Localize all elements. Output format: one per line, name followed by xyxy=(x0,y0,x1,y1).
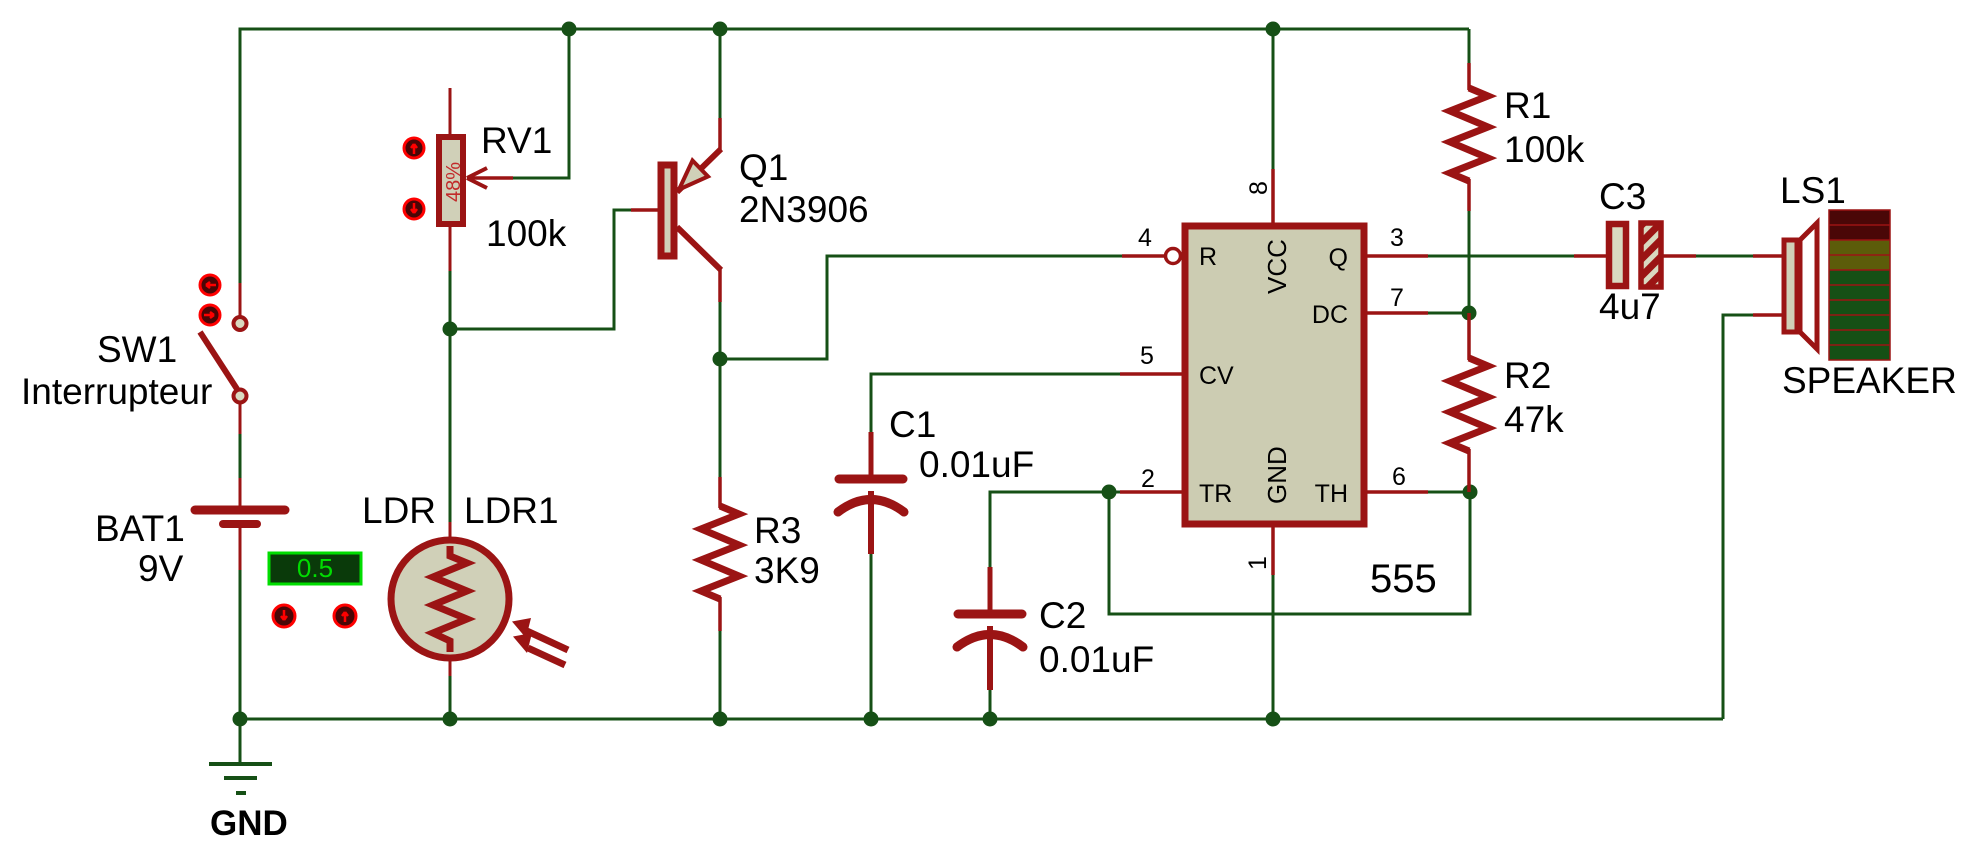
svg-text:R1: R1 xyxy=(1504,85,1551,126)
wire top rail VCC net xyxy=(240,29,1469,283)
speaker LS1 xyxy=(1753,223,1817,349)
svg-text:100k: 100k xyxy=(1504,129,1585,170)
555 pin 3 Q lead xyxy=(1364,254,1428,258)
junction top rail / RV1 wiper xyxy=(562,22,577,37)
junction DC/R1/R2 xyxy=(1462,306,1477,321)
svg-text:LS1: LS1 xyxy=(1780,170,1846,211)
potentiometer RV1 xyxy=(439,88,513,271)
RV1 button down xyxy=(404,199,424,219)
svg-text:VCC: VCC xyxy=(1262,239,1292,294)
battery BAT1 xyxy=(195,478,285,570)
capacitor C3 polarized xyxy=(1574,223,1696,287)
555 pin 7 DC lead xyxy=(1364,311,1428,315)
555 pin 5 CV lead xyxy=(1120,372,1185,376)
junction bottom rail / 555 GND xyxy=(1266,712,1281,727)
wire Q1 emitter to top rail xyxy=(719,29,722,118)
svg-text:LDR1: LDR1 xyxy=(464,490,559,531)
wire R3 bottom to bottom rail xyxy=(719,631,722,719)
555 pin 6 TH lead xyxy=(1364,490,1428,494)
svg-text:4: 4 xyxy=(1138,224,1152,252)
capacitor C1 xyxy=(838,432,904,554)
wire 555 pin7 DC to R1/R2 node xyxy=(1428,312,1469,315)
svg-text:BAT1: BAT1 xyxy=(95,508,185,549)
wire speaker minus to bottom rail xyxy=(1723,315,1753,719)
junction collector/R3/pin4 xyxy=(713,352,728,367)
wire RV1 bottom / LDR top / Q1 base node xyxy=(449,271,452,522)
LDR light arrow 1 xyxy=(512,618,568,650)
wire Q1 collector to R3 xyxy=(719,302,722,477)
svg-text:7: 7 xyxy=(1390,284,1404,312)
svg-text:0.5: 0.5 xyxy=(297,553,333,583)
wire C1 bottom to bottom rail xyxy=(870,554,873,719)
SW1 actuator button up xyxy=(200,275,220,295)
switch SW1 Interrupteur xyxy=(200,283,247,434)
svg-text:5: 5 xyxy=(1140,342,1154,370)
svg-text:SW1: SW1 xyxy=(97,329,177,370)
svg-text:Q1: Q1 xyxy=(739,147,788,188)
junction bottom rail / battery xyxy=(233,712,248,727)
LDR button up xyxy=(334,605,356,627)
svg-text:R: R xyxy=(1199,243,1217,271)
wire TR node down and right to TH node xyxy=(1109,492,1470,614)
svg-text:9V: 9V xyxy=(138,548,184,589)
svg-text:Interrupteur: Interrupteur xyxy=(21,371,212,412)
svg-text:SPEAKER: SPEAKER xyxy=(1782,360,1957,401)
svg-text:RV1: RV1 xyxy=(481,120,552,161)
RV1 button up xyxy=(404,138,424,158)
op-amp U1 555 timer body xyxy=(1185,226,1364,524)
svg-text:4u7: 4u7 xyxy=(1599,286,1661,327)
555 pin 1 GND lead xyxy=(1271,524,1275,575)
svg-text:8: 8 xyxy=(1245,181,1273,195)
svg-text:DC: DC xyxy=(1312,301,1348,329)
svg-text:TH: TH xyxy=(1315,480,1348,508)
svg-text:C2: C2 xyxy=(1039,595,1086,636)
svg-text:C3: C3 xyxy=(1599,176,1646,217)
LDR LDR1 xyxy=(391,522,509,676)
wire battery minus down to bottom rail xyxy=(239,570,242,719)
wire 555 pin8 VCC to top rail xyxy=(1272,29,1275,169)
svg-text:GND: GND xyxy=(1262,446,1292,504)
svg-text:48%: 48% xyxy=(443,162,465,202)
speaker LS1 colour bar xyxy=(1829,210,1890,360)
555 pin 8 VCC lead xyxy=(1271,169,1275,226)
svg-text:6: 6 xyxy=(1392,463,1406,491)
wire LDR bottom to bottom rail xyxy=(449,676,452,719)
svg-text:TR: TR xyxy=(1199,480,1232,508)
svg-text:R2: R2 xyxy=(1504,355,1551,396)
resistor R2 xyxy=(1450,313,1488,492)
wire RV1 wiper to top rail xyxy=(513,29,569,178)
junction top rail / Q1 emitter xyxy=(713,22,728,37)
wire bottom rail GND net xyxy=(240,718,1723,721)
555 pin 4 R lead with bubble xyxy=(1122,249,1181,264)
svg-text:555: 555 xyxy=(1370,557,1437,601)
transistor Q1 2N3906 xyxy=(631,118,721,302)
wire R1 top lead to top rail xyxy=(1468,29,1471,63)
wire C1 top to 555 pin5 CV xyxy=(871,374,1120,432)
wire ground symbol stub xyxy=(239,719,242,764)
wire C3 right to speaker plus xyxy=(1696,255,1753,258)
555 pin 2 TR lead xyxy=(1120,490,1185,494)
junction top rail / pin8 xyxy=(1266,22,1281,37)
wire C2 top to TR node xyxy=(990,492,1120,567)
junction TR/C2 xyxy=(1102,485,1117,500)
svg-text:CV: CV xyxy=(1199,362,1234,390)
svg-text:47k: 47k xyxy=(1504,399,1564,440)
junction bottom rail / C1 xyxy=(864,712,879,727)
svg-text:LDR: LDR xyxy=(362,490,436,531)
junction bottom rail / LDR xyxy=(443,712,458,727)
wire 555 pin1 GND to bottom rail xyxy=(1272,575,1275,719)
wire SW1 bottom to battery xyxy=(239,434,242,478)
junction bottom rail / R3 xyxy=(713,712,728,727)
wire 555 pin3 Q to C3 xyxy=(1428,255,1574,258)
capacitor C2 xyxy=(957,567,1023,690)
LDR light arrow 2 xyxy=(513,633,565,665)
wire C2 bottom to bottom rail xyxy=(989,690,992,719)
svg-text:1: 1 xyxy=(1244,556,1272,570)
svg-text:2: 2 xyxy=(1141,465,1155,493)
LDR value display 0.5 xyxy=(269,553,361,584)
junction node A RV1/LDR/base xyxy=(443,322,458,337)
svg-text:Q: Q xyxy=(1329,244,1348,272)
SW1 actuator button down xyxy=(200,305,220,325)
resistor R1 xyxy=(1450,63,1488,211)
resistor R3 xyxy=(701,477,739,631)
wire R1 bottom to DC node xyxy=(1468,211,1471,313)
wire collector node to 555 pin4 R xyxy=(720,256,1122,359)
svg-text:0.01uF: 0.01uF xyxy=(1039,639,1154,680)
wire node A horizontal to Q1 base xyxy=(450,210,631,329)
svg-text:0.01uF: 0.01uF xyxy=(919,444,1034,485)
junction TH/R2 xyxy=(1463,485,1478,500)
LDR button down xyxy=(273,605,295,627)
svg-text:100k: 100k xyxy=(486,213,567,254)
svg-text:3: 3 xyxy=(1390,224,1404,252)
svg-text:GND: GND xyxy=(210,804,288,843)
junction bottom rail / C2 xyxy=(983,712,998,727)
svg-text:C1: C1 xyxy=(889,404,936,445)
svg-text:2N3906: 2N3906 xyxy=(739,189,869,230)
ground xyxy=(209,764,272,793)
svg-text:R3: R3 xyxy=(754,510,801,551)
svg-text:3K9: 3K9 xyxy=(754,550,820,591)
